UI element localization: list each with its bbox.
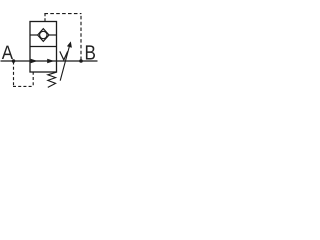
node A junction dot bbox=[12, 59, 16, 63]
node B junction dot bbox=[79, 59, 83, 63]
spring of compensator bbox=[48, 72, 57, 87]
throttle adjustment arrow shaft bbox=[60, 46, 69, 81]
check valve V1 ball bbox=[40, 31, 47, 38]
throttle V notch bbox=[60, 51, 68, 60]
check valve V1 diamond seat bbox=[38, 29, 49, 42]
port label B bbox=[86, 45, 95, 59]
valve body block bbox=[30, 22, 57, 73]
pilot line dashed right drop to node B bbox=[80, 13, 82, 60]
wire main line A to B bbox=[1, 60, 98, 62]
flow direction arrowhead left bbox=[31, 59, 38, 64]
wire check valve right segment bbox=[49, 34, 57, 36]
throttle adjustment arrowhead bbox=[67, 41, 72, 47]
pilot line dashed drop from node A bbox=[13, 62, 15, 87]
wire check valve left segment bbox=[30, 34, 38, 36]
flow direction arrowhead right bbox=[47, 59, 54, 64]
pilot line dashed bottom horizontal bbox=[13, 85, 34, 87]
pilot line dashed riser to bottom of block bbox=[32, 72, 34, 87]
pilot line dashed top horizontal bbox=[44, 13, 81, 15]
valve body divider line bbox=[30, 46, 57, 48]
pilot line dashed riser from top of block bbox=[44, 13, 46, 22]
port label A bbox=[2, 46, 13, 59]
